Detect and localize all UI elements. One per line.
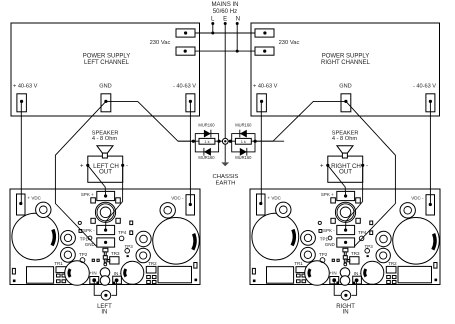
svg-text:1 k: 1 k xyxy=(204,139,209,144)
svg-text:POWER SUPPLY: POWER SUPPLY xyxy=(83,53,131,59)
svg-text:RIGHT CHANNEL: RIGHT CHANNEL xyxy=(321,60,371,66)
svg-text:230 Vac: 230 Vac xyxy=(279,40,300,46)
svg-text:RIGHT CH: RIGHT CH xyxy=(331,163,361,170)
svg-text:CHASSIS: CHASSIS xyxy=(212,174,238,180)
svg-text:1 k: 1 k xyxy=(241,139,246,144)
svg-text:MUR160: MUR160 xyxy=(235,123,252,128)
svg-text:IN: IN xyxy=(343,310,349,316)
svg-text:230 Vac: 230 Vac xyxy=(150,40,171,46)
svg-text:MUR160: MUR160 xyxy=(235,155,252,160)
svg-text:EARTH: EARTH xyxy=(215,180,235,186)
svg-text:MAINS IN: MAINS IN xyxy=(211,1,238,8)
svg-text:L: L xyxy=(211,15,215,22)
svg-text:IN: IN xyxy=(101,310,107,316)
svg-text:MUR160: MUR160 xyxy=(198,123,215,128)
svg-text:LEFT CH: LEFT CH xyxy=(93,163,119,170)
svg-text:LEFT CHANNEL: LEFT CHANNEL xyxy=(84,60,130,66)
svg-text:E: E xyxy=(223,15,227,22)
svg-text:MUR160: MUR160 xyxy=(198,155,215,160)
svg-text:N: N xyxy=(236,15,240,22)
svg-text:50/60 Hz: 50/60 Hz xyxy=(213,8,237,15)
svg-text:POWER SUPPLY: POWER SUPPLY xyxy=(322,53,370,59)
